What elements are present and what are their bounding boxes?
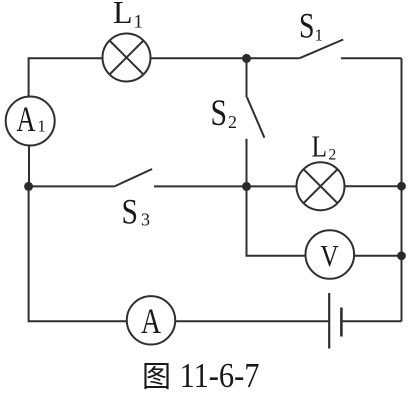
wire S2 lower contact to node N2	[246, 139, 248, 187]
label L1	[113, 0, 143, 33]
switch S2 blade	[247, 97, 264, 137]
wire right rail	[401, 58, 403, 321]
label S3	[122, 192, 151, 232]
svg-text:A: A	[141, 301, 161, 341]
svg-text:1: 1	[315, 25, 324, 44]
label S2	[211, 93, 238, 134]
lamp L2	[297, 162, 345, 210]
label S1	[299, 5, 323, 45]
lamp L1	[103, 34, 151, 82]
svg-text:S: S	[211, 93, 228, 134]
svg-text:V: V	[320, 239, 339, 273]
svg-text:2: 2	[228, 112, 237, 132]
wire A1 bottom to node N1	[28, 145, 30, 186]
wire top-left corner (top rail to A1 top)	[29, 58, 103, 97]
svg-text:A: A	[17, 99, 36, 139]
voltmeter V circle	[306, 230, 355, 279]
wire ammeter A right to battery	[175, 320, 329, 322]
wire top rail L1 right to S1 pivot	[151, 57, 300, 59]
label L2	[312, 129, 337, 164]
svg-text:S: S	[122, 192, 139, 232]
wire battery right plate to bottom-right corner	[341, 320, 401, 322]
svg-text:2: 2	[329, 147, 337, 164]
ammeter A1 circle	[6, 97, 55, 146]
node N2 junction dot	[242, 182, 251, 191]
battery GB long plate	[328, 293, 330, 349]
node N1 junction dot	[24, 182, 33, 191]
wire S3 right contact to L2 left	[154, 185, 297, 187]
switch S3 blade	[114, 169, 152, 187]
svg-text:图: 图	[142, 362, 171, 394]
wire V right to node N4	[354, 255, 401, 257]
svg-text:1: 1	[38, 117, 46, 136]
caption 图 11-6-7	[142, 357, 260, 395]
node N4 junction dot	[397, 251, 406, 260]
svg-text:L: L	[113, 0, 133, 30]
svg-text:S: S	[299, 5, 315, 45]
wire L2 right to node N3	[345, 185, 402, 187]
wire node N5 down to S2 pivot	[246, 58, 248, 97]
wire S1 right contact to top-right corner	[341, 57, 402, 59]
node N5 junction dot	[242, 54, 251, 63]
ammeter A circle	[127, 296, 175, 344]
battery GB short plate	[340, 308, 343, 337]
wire left rail N1 down and bottom wire to ammeter A	[29, 186, 128, 321]
svg-text:L: L	[312, 129, 328, 164]
svg-text:1: 1	[134, 12, 144, 33]
wire voltmeter branch N2 down and right to V	[247, 186, 306, 255]
svg-text:3: 3	[141, 210, 150, 230]
svg-text:11-6-7: 11-6-7	[180, 357, 260, 395]
node N3 junction dot	[397, 182, 406, 191]
switch S1 blade	[300, 40, 344, 59]
label A1 inside ammeter	[17, 99, 46, 139]
wire middle rail N1 to S3 pivot	[29, 185, 114, 187]
